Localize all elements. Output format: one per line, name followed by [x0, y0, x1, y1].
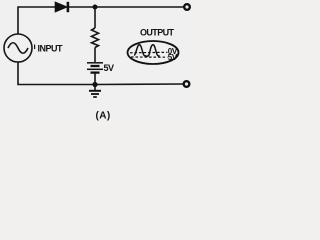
svg-text:INPUT: INPUT: [38, 44, 64, 54]
node top junction: [93, 5, 98, 10]
svg-text:5V: 5V: [104, 63, 115, 73]
wire battery to bottom junction: [94, 74, 96, 85]
wire source bottom to bottom rail: [18, 62, 93, 85]
tick right of source: [34, 45, 36, 50]
svg-text:5V: 5V: [168, 53, 178, 62]
dashed line 5V: [131, 56, 168, 58]
wire top junction to output terminal: [95, 6, 184, 8]
wire resistor to battery: [94, 48, 96, 63]
svg-text:OUTPUT: OUTPUT: [140, 28, 175, 38]
wire top junction down to resistor: [94, 7, 96, 28]
ground: [89, 85, 101, 98]
svg-text:(A): (A): [96, 111, 111, 122]
node bottom junction: [92, 82, 97, 87]
output waveform oval: [128, 41, 179, 64]
AC source G1: [4, 34, 32, 62]
resistor R1: [92, 28, 99, 48]
wire top-left from source to diode: [18, 7, 55, 34]
wire bottom rail right to terminal: [95, 83, 184, 86]
battery BT1 5V: [87, 63, 103, 73]
terminal bottom output: [184, 81, 190, 87]
terminal top output: [184, 4, 190, 10]
diode CR1: [55, 2, 69, 12]
dashed line 0V: [130, 51, 168, 54]
wire diode to top junction: [69, 6, 95, 8]
waveform trace: [134, 45, 160, 57]
